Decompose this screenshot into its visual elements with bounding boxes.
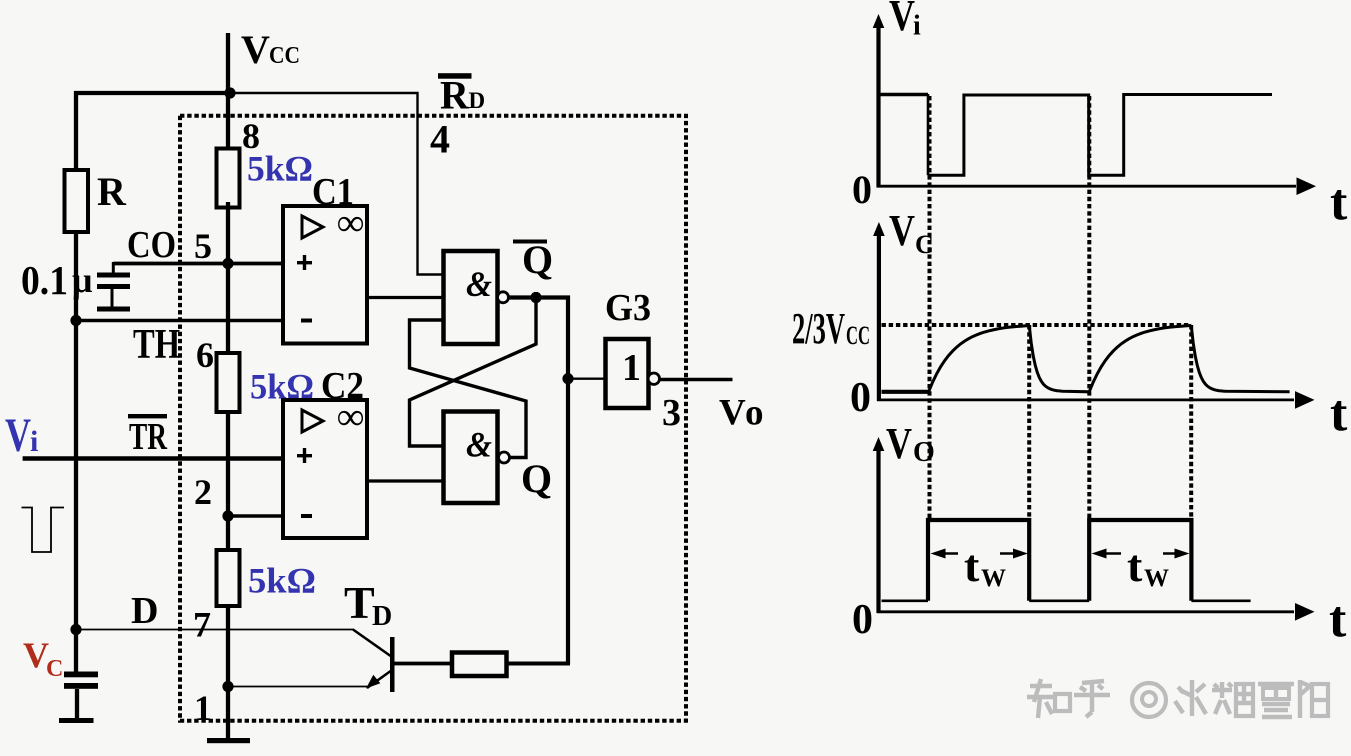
svg-text:0: 0 xyxy=(852,167,872,212)
label G3 xyxy=(605,287,651,329)
label CO xyxy=(127,224,176,266)
label Q xyxy=(521,456,552,501)
resistor 5k upper xyxy=(217,149,240,208)
svg-text:0: 0 xyxy=(852,597,873,643)
resistor base xyxy=(452,653,507,677)
label C2 xyxy=(321,365,364,407)
svg-text:&: & xyxy=(466,264,492,304)
svg-text:TR: TR xyxy=(129,416,167,458)
op-amp comparator C2 xyxy=(283,396,367,538)
junction discharge node xyxy=(70,624,81,635)
wire Q-bar feedback to G2 xyxy=(410,298,537,447)
waveform VO pulse 1 xyxy=(928,520,1029,601)
junction Q-bar node xyxy=(530,292,541,303)
nand gate G1 xyxy=(444,251,509,344)
label VC xyxy=(23,635,63,682)
dotted line t1 (end of tw) xyxy=(1027,325,1031,520)
wire TH node down xyxy=(74,319,78,673)
pin 4 xyxy=(430,117,450,162)
dotted line t0 xyxy=(928,96,932,520)
svg-text:Q: Q xyxy=(521,456,552,501)
svg-text:t: t xyxy=(964,540,980,591)
svg-text:μ: μ xyxy=(72,260,92,300)
waveform VO low segments xyxy=(882,599,1251,602)
pin 8 xyxy=(242,116,260,156)
junction trigger divider xyxy=(222,510,233,521)
svg-text:&: & xyxy=(466,425,492,465)
nand gate G2 xyxy=(444,412,510,504)
label Vi axis xyxy=(889,0,921,42)
svg-text:CC: CC xyxy=(846,321,870,350)
svg-text:0.1: 0.1 xyxy=(21,257,68,303)
wire divider top xyxy=(226,91,230,151)
svg-text:5kΩ: 5kΩ xyxy=(248,561,316,601)
label mu xyxy=(72,260,92,300)
label VCC xyxy=(241,27,300,72)
node TH junction xyxy=(70,315,81,326)
inverter G3 xyxy=(606,339,660,408)
threshold dotted line 2/3Vcc xyxy=(882,323,1192,327)
wire CO pin 5 xyxy=(113,262,283,266)
svg-text:1: 1 xyxy=(194,688,212,728)
label TD xyxy=(344,577,392,632)
svg-text:t: t xyxy=(1330,385,1348,442)
label Vo xyxy=(719,393,764,434)
dotted line t3 xyxy=(1189,325,1193,520)
svg-text:V: V xyxy=(241,27,270,72)
svg-text:V: V xyxy=(719,393,746,434)
svg-text:5kΩ: 5kΩ xyxy=(247,149,313,189)
wire VCC to resistor R xyxy=(74,91,78,172)
label Vi xyxy=(5,409,38,462)
label TH xyxy=(133,322,180,368)
dimension arrows tw 1 xyxy=(931,549,1029,559)
wire divider node CO xyxy=(226,202,230,355)
svg-text:V: V xyxy=(889,0,915,40)
resistor 5k middle xyxy=(217,353,240,412)
waveform Vi xyxy=(928,95,1272,176)
ground IC pin 1 xyxy=(207,738,250,743)
svg-text:R: R xyxy=(440,73,470,118)
svg-text:R: R xyxy=(97,169,127,214)
label 0 VO xyxy=(852,597,873,643)
svg-text:t: t xyxy=(1127,540,1143,591)
svg-text:V: V xyxy=(886,419,912,468)
waveform VC charge-discharge curve xyxy=(929,325,1290,392)
node VCC xyxy=(226,33,230,95)
label RD-bar xyxy=(438,73,485,118)
svg-text:2: 2 xyxy=(194,472,212,512)
svg-text:t: t xyxy=(1329,591,1347,648)
pin 6 xyxy=(196,335,214,375)
svg-text:o: o xyxy=(745,393,764,434)
label 0 VC xyxy=(850,375,871,421)
svg-text:t: t xyxy=(1330,174,1348,231)
capacitor 0.1u xyxy=(97,262,130,312)
ground VC xyxy=(59,718,94,723)
watermark zhihu xyxy=(1027,679,1328,718)
junction VCC rail xyxy=(224,87,235,98)
svg-text:W: W xyxy=(981,565,1006,592)
wire emitter to ground line xyxy=(228,686,369,688)
wire divider node TR xyxy=(226,410,230,552)
svg-text:TH: TH xyxy=(133,322,180,368)
waveform VC initial low xyxy=(882,390,929,394)
wire TH pin 6 xyxy=(76,319,283,322)
wire output pin 3 xyxy=(660,378,733,381)
op-amp comparator C1 xyxy=(283,202,367,344)
svg-text:G3: G3 xyxy=(605,287,651,329)
wire divider to ground xyxy=(226,604,230,741)
svg-text:C: C xyxy=(46,656,63,682)
label TR-bar xyxy=(128,414,167,458)
label t Vi xyxy=(1330,174,1348,231)
label 0.1 xyxy=(21,257,68,303)
svg-text:7: 7 xyxy=(193,605,211,645)
dimension arrows tw 2 xyxy=(1092,549,1190,559)
svg-text:C2: C2 xyxy=(321,365,364,407)
svg-text:W: W xyxy=(1144,565,1169,592)
wire VCC rail xyxy=(74,91,231,95)
axis Vi horizontal xyxy=(877,177,1316,195)
label VO axis xyxy=(886,419,935,468)
wire Q feedback to G1 xyxy=(410,320,527,458)
svg-text:0: 0 xyxy=(850,375,871,421)
svg-text:4: 4 xyxy=(430,117,450,162)
pin 1 xyxy=(194,688,212,728)
axis VC vertical xyxy=(873,222,885,401)
capacitor C (VC) xyxy=(64,672,98,720)
wire C1 output xyxy=(367,296,444,299)
input pulse symbol xyxy=(22,508,65,553)
wire G3 input xyxy=(568,378,606,380)
label Q-bar xyxy=(513,237,553,282)
svg-text:V: V xyxy=(5,409,31,462)
svg-text:CC: CC xyxy=(269,43,300,69)
wire base resistor to transistor xyxy=(394,662,454,666)
wire C2 output xyxy=(367,479,444,482)
555 IC dashed boundary box xyxy=(180,116,686,721)
svg-text:i: i xyxy=(30,425,38,458)
wire R to TH node xyxy=(74,230,78,322)
junction G3 input node xyxy=(562,373,573,384)
svg-text:5: 5 xyxy=(194,226,212,266)
resistor 5k lower xyxy=(217,550,240,606)
waveform VO pulse 2 xyxy=(1089,520,1191,601)
label t VC xyxy=(1330,385,1348,442)
resistor R xyxy=(65,170,89,232)
pin 5 xyxy=(194,226,212,266)
axis Vi vertical xyxy=(873,14,885,188)
svg-text:T: T xyxy=(344,577,375,628)
wire trigger divider to C2 minus xyxy=(228,514,283,517)
junction emitter ground xyxy=(222,681,233,692)
label 5k middle xyxy=(250,367,314,407)
svg-text:1: 1 xyxy=(622,347,641,389)
label t VO xyxy=(1329,591,1347,648)
pin 3 xyxy=(662,392,681,434)
svg-text:D: D xyxy=(131,590,158,632)
waveform Vi first pulse high xyxy=(881,93,929,97)
label 2/3Vcc xyxy=(792,304,870,353)
wire base resistor to Q-bar line xyxy=(506,662,570,666)
pin 2 xyxy=(194,472,212,512)
waveform Vi falling edge 1 xyxy=(927,94,930,175)
label tw 1 xyxy=(964,540,1006,592)
label 0 Vi xyxy=(852,167,872,212)
svg-text:D: D xyxy=(469,88,486,113)
svg-text:6: 6 xyxy=(196,335,214,375)
transistor TD xyxy=(353,630,395,693)
label 5k lower xyxy=(248,561,316,601)
axis VO vertical xyxy=(873,437,885,613)
junction CO divider xyxy=(222,258,233,269)
svg-text:CO: CO xyxy=(127,224,176,266)
label R xyxy=(97,169,127,214)
wire discharge D pin 7 xyxy=(76,629,354,631)
label VC axis xyxy=(889,206,934,259)
label C1 xyxy=(312,171,354,213)
pin 7 xyxy=(193,605,211,645)
axis VC horizontal xyxy=(877,391,1315,409)
svg-text:O: O xyxy=(913,437,935,468)
axis VO horizontal xyxy=(877,603,1315,621)
wire TR pin 2 from Vi xyxy=(23,456,283,461)
svg-text:C1: C1 xyxy=(312,171,354,213)
dotted line t2 xyxy=(1087,96,1091,520)
label D xyxy=(131,590,158,632)
svg-text:V: V xyxy=(889,206,915,255)
svg-text:3: 3 xyxy=(662,392,681,434)
svg-text:Q: Q xyxy=(522,237,553,282)
svg-text:2/3V: 2/3V xyxy=(792,304,845,353)
label 5k upper xyxy=(247,149,313,189)
label tw 2 xyxy=(1127,540,1169,592)
svg-text:i: i xyxy=(913,11,921,42)
wire Q-bar output xyxy=(509,298,569,664)
svg-text:D: D xyxy=(372,601,392,632)
wire reset RD to gate G1 (pin 4) xyxy=(231,93,444,275)
